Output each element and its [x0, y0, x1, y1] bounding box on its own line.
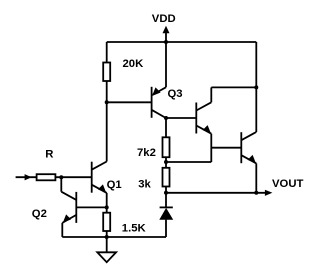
resistor R [37, 148, 56, 180]
svg-text:1.5K: 1.5K [122, 222, 147, 234]
transistor Q4 [196, 87, 211, 133]
node Q5 emitter junction [254, 191, 258, 195]
node VDD junction [164, 40, 168, 44]
wire R to Q1 base [55, 176, 91, 178]
svg-text:Q2: Q2 [32, 208, 47, 220]
wire Q2 base [76, 206, 106, 208]
wire Q3 collector to Q4 base [166, 117, 196, 119]
node 7k2-3k junction [164, 160, 168, 164]
wire bottom rail [62, 236, 166, 238]
wire junction to Q4 emitter column [166, 161, 211, 163]
wire input lead [16, 176, 37, 178]
svg-text:20K: 20K [123, 58, 145, 70]
svg-text:R: R [45, 148, 53, 160]
wire 7k2 to 3k [165, 157, 167, 168]
wire VOUT line [166, 192, 267, 194]
wire Q4 collector to right column [211, 86, 256, 88]
svg-text:VDD: VDD [152, 13, 176, 25]
wire 1.5K to rail [106, 231, 108, 237]
svg-text:Q3: Q3 [168, 88, 183, 100]
wire left rail upper [106, 42, 108, 63]
wire Q5 base tap [211, 147, 241, 149]
resistor 20K [103, 58, 144, 81]
node Q3 collector junction [164, 116, 168, 120]
wire Q4 emitter column [210, 134, 212, 162]
resistor 7k2 [137, 137, 170, 159]
node Q2 base junction [105, 205, 109, 209]
svg-text:7k2: 7k2 [137, 147, 156, 159]
wire Q5 emitter to VOUT [255, 163, 257, 192]
wire Q1 emitter to 1.5K [106, 193, 108, 213]
svg-text:3k: 3k [138, 179, 151, 191]
node ground junction [105, 235, 109, 239]
transistor Q5 [241, 132, 256, 163]
resistor 1.5K [103, 213, 146, 235]
input terminal arrow [25, 174, 32, 180]
resistor 3k [138, 168, 169, 191]
node VOUT junction at 3k [164, 191, 168, 195]
diode D1 [159, 193, 173, 237]
wire to 7k2 [165, 118, 167, 137]
transistor Q3 [152, 87, 183, 118]
svg-text:Q1: Q1 [107, 179, 122, 191]
transistor Q2 [32, 177, 77, 237]
wire Q3 base [107, 101, 152, 103]
VDD power symbol [152, 13, 176, 87]
VOUT terminal arrow and label [265, 178, 304, 196]
node right column junction [254, 85, 258, 89]
transistor Q1 [92, 162, 122, 193]
wire left rail lower [106, 81, 108, 162]
wire right column from rail [255, 42, 257, 132]
wire top VDD rail [107, 41, 257, 43]
ground [97, 237, 116, 262]
wire 3k to VOUT node [165, 187, 167, 193]
node base of Q3 junction [105, 100, 109, 104]
svg-text:VOUT: VOUT [272, 178, 303, 190]
node Q2 collector junction [59, 175, 63, 179]
